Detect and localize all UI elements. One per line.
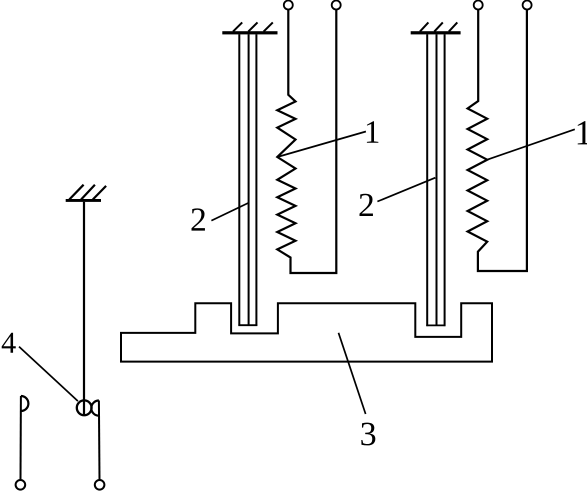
left rope end ring [16, 480, 26, 490]
hanger ring c4 [523, 1, 532, 10]
fixed support bar 2 (right) [411, 22, 461, 34]
leader line 1 (left) [277, 132, 366, 158]
rod 2 (right damper tube) [426, 34, 445, 326]
fixed support bar 1 (center) [222, 22, 277, 34]
pendulum rod (left) [83, 202, 85, 415]
hanger ring c1 [284, 1, 293, 10]
label 2 (left) [192, 208, 205, 230]
leader line 3 [339, 333, 366, 414]
leader line 2 (left) [211, 203, 248, 221]
leader line 2 (right) [377, 178, 435, 202]
right rope end ring [95, 480, 105, 490]
label 4 [2, 333, 16, 353]
leader line 1 (right) [487, 129, 575, 159]
label 1 (right) [578, 121, 587, 144]
hanger ring c3 [474, 1, 483, 10]
label 2 (right) [360, 194, 373, 216]
label 3 [361, 423, 375, 446]
rod 2 (center damper tube) [238, 34, 257, 326]
pulley 4 [77, 400, 92, 415]
spring 2 with hanger bracket [468, 10, 527, 272]
base plate 3 [121, 303, 492, 361]
right rope semicircle [91, 401, 99, 416]
fixed support bar (left pendulum) [66, 185, 106, 202]
left rope semicircle [21, 396, 29, 411]
leader line 4 [19, 347, 78, 402]
label 1 (left) [367, 121, 378, 142]
spring 1 with hanger bracket [277, 10, 336, 274]
hanger ring c2 [332, 1, 341, 10]
left rope line [20, 396, 22, 480]
right rope line [98, 401, 101, 480]
